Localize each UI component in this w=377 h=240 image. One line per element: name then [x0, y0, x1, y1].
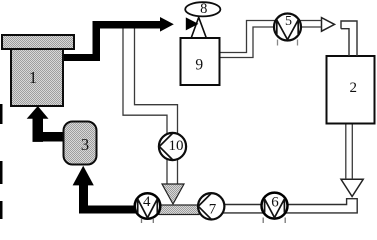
wire: thin pipe top-left edge from generator 9 to valve 5 — [220, 21, 277, 53]
wire: thin pipe inner line from thick pipe down to pump 10 — [135, 29, 178, 185]
vessel 2 — [327, 56, 375, 124]
hollow arrow pointing right before elbow — [322, 18, 335, 32]
arrowhead into vessel 1 — [27, 106, 49, 119]
wire: outlined elbow pipe into top of vessel 2 — [341, 21, 357, 56]
wire: thick pipe horizontal from vessel 3 to riser — [33, 132, 65, 142]
wire: thin pipe lines below vessel 2 — [346, 124, 353, 179]
edge tick mark lower left — [0, 201, 3, 219]
vessel 1 body — [11, 49, 63, 106]
svg-text:5: 5 — [285, 14, 292, 29]
hollow triangle pointing down below vessel 2 — [341, 179, 363, 196]
wire: thick black pipe top horizontal run — [93, 21, 161, 29]
valve 5 legs — [278, 40, 298, 46]
wire: thin pipe outer line from thick pipe down to pump 10 — [123, 29, 167, 185]
wire: thin pipe bottom-right edge from generator 9 to valve 5 — [220, 27, 302, 58]
valve 5 — [274, 14, 301, 41]
pump 4 legs — [142, 218, 154, 223]
pump 7 — [198, 193, 224, 219]
gray feed triangle into slurry pipe — [162, 184, 184, 204]
arrowhead into vessel 3 — [73, 166, 94, 186]
state ellipse 8 — [185, 2, 220, 16]
svg-text:8: 8 — [200, 1, 207, 17]
wire: thick black pipe from vessel 1 right side — [63, 54, 101, 61]
wire: thin bottom pipe top line from pump 7 to right elbow — [220, 199, 357, 213]
wire: thin pipe from valve 5 to hollow arrow — [301, 21, 322, 28]
wire: thin pipe line behind valve 5 — [276, 20, 301, 22]
vessel 1 cap — [2, 35, 74, 49]
arrowhead at end of thick pipe — [160, 17, 174, 32]
generator 9 — [181, 38, 220, 85]
pump 6 legs — [263, 218, 285, 224]
svg-text:1: 1 — [29, 68, 37, 87]
wire: thick pipe vertical riser to vessel 3 — [79, 185, 88, 214]
pump 10 — [159, 133, 186, 160]
pump 4 — [135, 193, 161, 219]
wire: thick pipe bottom horizontal into pump 4 — [79, 206, 137, 214]
svg-text:9: 9 — [195, 56, 203, 73]
black injector triangle — [186, 17, 199, 30]
wire: thick pipe vertical below arrowhead to vessel 1 — [33, 118, 44, 142]
svg-text:10: 10 — [169, 138, 184, 154]
svg-text:4: 4 — [143, 194, 151, 210]
vessel 3 rounded — [64, 122, 97, 165]
svg-text:2: 2 — [349, 80, 357, 96]
svg-text:6: 6 — [271, 194, 279, 210]
burner cone on generator 9 — [191, 17, 207, 38]
pump 6 — [262, 193, 288, 219]
svg-text:7: 7 — [209, 201, 217, 217]
edge tick mark middle left — [0, 161, 3, 184]
wire: gray slurry pipe between pump 4 and pump 7 — [159, 205, 199, 215]
wire: thick black pipe vertical riser — [93, 21, 101, 61]
edge tick mark upper left — [0, 104, 3, 124]
svg-text:3: 3 — [81, 135, 89, 154]
